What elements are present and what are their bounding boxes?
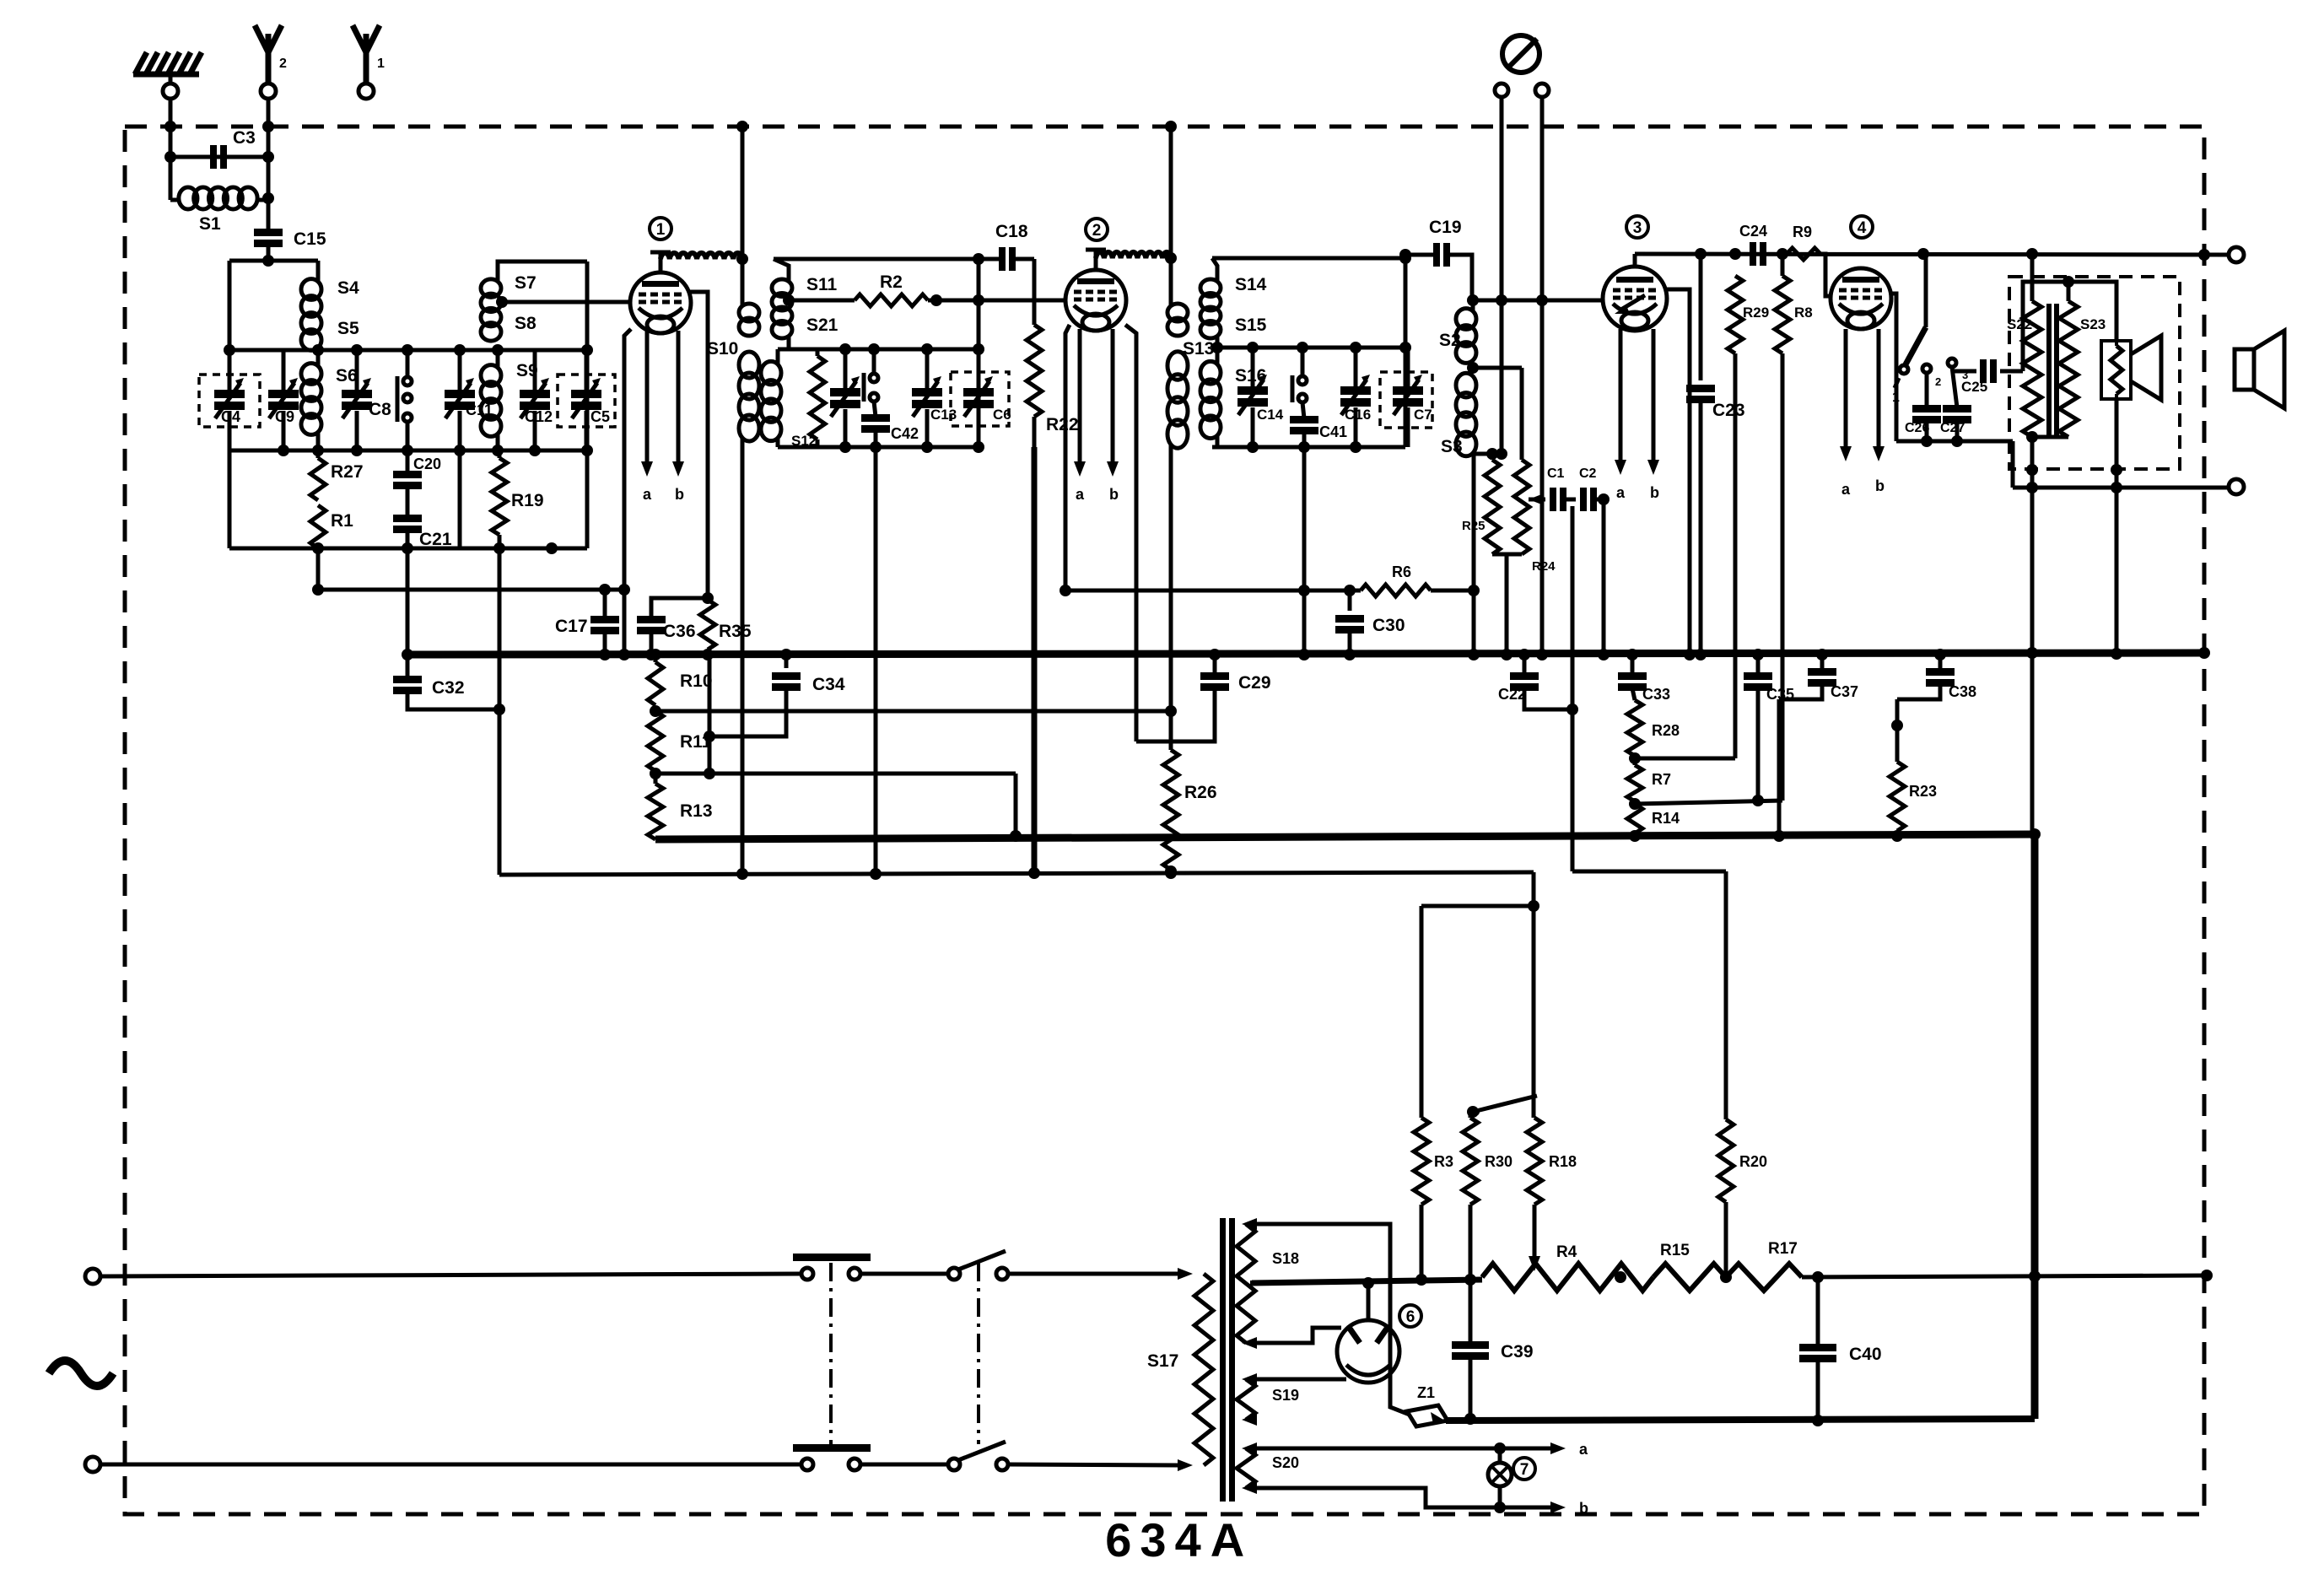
resistor R9 — [1787, 224, 1820, 260]
wire C1 C2 — [1566, 498, 1576, 502]
bus y1517 — [1252, 1280, 1482, 1283]
svg-text:R11: R11 — [680, 732, 712, 752]
svg-text:C34: C34 — [812, 675, 845, 694]
resistor R7 — [1627, 756, 1671, 801]
S20 bottom wire — [1247, 1488, 1588, 1517]
R25 R24 bottoms — [1492, 554, 1522, 660]
tuning meter — [1502, 35, 1539, 73]
svg-text:R7: R7 — [1652, 771, 1671, 788]
svg-text:4: 4 — [1858, 219, 1867, 237]
rail y415 — [224, 344, 587, 356]
main bus1 — [407, 647, 2210, 659]
svg-text:a: a — [1841, 481, 1851, 498]
ground terminal — [163, 84, 178, 99]
resistor R28 — [1627, 700, 1680, 756]
speaker coil box — [2101, 341, 2131, 399]
capacitor C27 — [1940, 367, 1971, 441]
output dashed box — [2009, 277, 2180, 469]
svg-text:R25: R25 — [1462, 519, 1486, 533]
capacitor C17 — [555, 584, 619, 660]
svg-text:C4: C4 — [221, 408, 240, 425]
svg-text:R28: R28 — [1652, 722, 1680, 739]
svg-text:S21: S21 — [806, 315, 838, 335]
svg-text:2: 2 — [279, 57, 287, 71]
svg-text:R14: R14 — [1652, 810, 1680, 827]
osc coil S12 — [761, 349, 817, 449]
capacitor C25 — [1952, 359, 2023, 395]
variable capacitor C12 — [520, 350, 553, 450]
svg-text:C37: C37 — [1831, 683, 1858, 700]
secondary S23 — [2059, 301, 2106, 437]
svg-text:b: b — [1579, 1500, 1588, 1517]
transformer core — [2046, 304, 2059, 439]
svg-text:C16: C16 — [1345, 407, 1371, 423]
svg-text:Z1: Z1 — [1417, 1384, 1435, 1401]
wire C3 link — [170, 155, 268, 159]
AC symbol — [49, 1361, 113, 1386]
variable capacitor C43 — [830, 349, 860, 447]
svg-text:6: 6 — [1406, 1308, 1415, 1326]
HT centre tap — [1250, 1281, 1252, 1286]
wire C19 to grid — [1449, 255, 1603, 306]
osc rail y530 — [778, 441, 979, 453]
B4 anode wire — [1890, 294, 1896, 441]
chain to border — [1802, 1270, 2213, 1283]
main bus2 — [655, 828, 2041, 840]
coil S2 — [1439, 309, 1476, 364]
speaker coil top wire — [2062, 276, 2116, 341]
resistor R27 — [310, 450, 364, 500]
AC wire to primary upper — [1009, 1268, 1193, 1280]
svg-text:C17: C17 — [555, 617, 588, 636]
coil S4 S5 — [301, 278, 359, 350]
resistor R35 — [700, 600, 752, 660]
resistor R13 — [648, 771, 713, 839]
svg-text:C32: C32 — [432, 678, 465, 698]
coil S10 — [707, 304, 759, 441]
B2 top cap squiggle — [1086, 248, 1177, 270]
rectifier number — [1399, 1305, 1421, 1327]
svg-text:C15: C15 — [294, 229, 326, 249]
coil S9 — [481, 350, 538, 450]
rail y650 — [229, 450, 587, 554]
AC wire mid lower — [861, 1463, 948, 1467]
svg-text:S4: S4 — [337, 278, 359, 298]
svg-text:C8: C8 — [369, 400, 391, 419]
svg-text:7: 7 — [1520, 1461, 1529, 1479]
svg-text:C14: C14 — [1257, 407, 1284, 423]
B3 right side wire — [1665, 289, 1696, 660]
resistor R22 — [1027, 259, 1079, 447]
B3 heater lead a — [1615, 329, 1626, 501]
svg-text:R20: R20 — [1739, 1153, 1767, 1170]
switch2 contacts lower — [948, 1442, 1008, 1470]
svg-text:R10: R10 — [680, 671, 713, 691]
variable capacitor C6 — [963, 349, 1011, 447]
tube B3 — [1603, 267, 1667, 331]
svg-text:S14: S14 — [1235, 275, 1267, 294]
svg-text:2: 2 — [1092, 222, 1102, 240]
resistor R23 — [1890, 699, 1937, 842]
svg-text:C40: C40 — [1849, 1345, 1882, 1364]
antenna 1 terminal — [359, 84, 374, 99]
wire y917 — [650, 768, 1016, 779]
AC wire lower — [100, 1463, 801, 1467]
capacitor C21 — [393, 487, 452, 549]
capacitor C26 — [1905, 373, 1941, 441]
B2 cathode wire — [1060, 325, 1071, 596]
svg-text:R29: R29 — [1743, 305, 1769, 321]
switch1 bridge lower — [793, 1444, 871, 1452]
wire S1 left — [169, 157, 173, 200]
wire C41 down — [1298, 447, 1310, 660]
wire osc down 1038 — [874, 447, 878, 871]
capacitor C20 — [393, 450, 441, 489]
switch2 contacts upper — [948, 1251, 1008, 1280]
svg-text:R3: R3 — [1434, 1153, 1453, 1170]
variable capacitor C8 — [342, 350, 391, 450]
variable capacitor C7 — [1393, 348, 1432, 447]
resistor R30 — [1463, 1112, 1512, 1286]
svg-text:C42: C42 — [891, 425, 919, 442]
svg-text:a: a — [643, 486, 652, 503]
output terminal upper — [2229, 247, 2244, 262]
wire y523 — [1896, 435, 2013, 447]
resistor R14 — [1627, 804, 1680, 842]
svg-text:R1: R1 — [331, 511, 353, 531]
svg-text:R9: R9 — [1793, 224, 1812, 240]
svg-text:1: 1 — [377, 57, 385, 71]
svg-text:R17: R17 — [1768, 1240, 1798, 1258]
capacitor C42 — [861, 402, 919, 447]
svg-text:C24: C24 — [1739, 223, 1767, 240]
switch1 bridge upper — [793, 1254, 871, 1261]
svg-text:a: a — [1579, 1441, 1588, 1458]
S20 top wire — [1247, 1441, 1588, 1458]
output terminal lower — [2229, 479, 2244, 494]
svg-text:R13: R13 — [680, 801, 713, 821]
svg-text:C39: C39 — [1501, 1342, 1534, 1361]
wire x1864 down — [1566, 506, 1578, 871]
S19 top wire — [1247, 1378, 1346, 1382]
IF2 right side — [1399, 258, 1411, 447]
big speaker — [2235, 331, 2284, 408]
capacitor C1 — [1547, 466, 1566, 511]
wire top border to S10 — [736, 121, 748, 305]
tube B2 — [1065, 270, 1126, 331]
B4 heater lead b — [1873, 329, 1885, 494]
resistor R18 — [1527, 1118, 1577, 1271]
wire y843 — [650, 705, 1171, 717]
tube B1 number — [650, 218, 671, 240]
svg-text:C9: C9 — [275, 408, 294, 425]
capacitor C40 — [1799, 1277, 1882, 1426]
variable capacitor C16 — [1340, 348, 1371, 447]
wire antenna2 down — [262, 99, 274, 230]
svg-text:R23: R23 — [1909, 783, 1937, 800]
svg-text:S6: S6 — [336, 366, 358, 386]
svg-text:C7: C7 — [1414, 407, 1432, 423]
svg-text:2: 2 — [1935, 375, 1941, 388]
wire top border to S13 — [1165, 121, 1177, 258]
svg-text:C12: C12 — [525, 408, 553, 425]
svg-text:S18: S18 — [1272, 1250, 1299, 1267]
antenna 2 symbol — [255, 25, 287, 84]
wire to R20 top — [1572, 870, 1726, 874]
svg-text:S8: S8 — [515, 314, 537, 333]
switch contact 2 — [1922, 364, 1941, 388]
svg-text:S10: S10 — [707, 339, 738, 359]
resistor R17 — [1726, 1240, 1802, 1291]
svg-text:b: b — [1875, 477, 1885, 494]
IF2 rail y530 — [1212, 441, 1405, 453]
svg-text:b: b — [675, 486, 684, 503]
meter wire 1 — [1496, 97, 1507, 460]
svg-text:3: 3 — [1633, 219, 1642, 237]
capacitor C19 — [1429, 218, 1462, 267]
B2 heater lead b — [1107, 329, 1119, 503]
capacitor C33 — [1618, 649, 1670, 703]
AC terminal upper — [85, 1269, 100, 1284]
primary S22 — [2007, 254, 2041, 437]
coil S3 — [1441, 373, 1476, 456]
coil S7 S8 — [481, 273, 537, 341]
wire R3 branch — [1421, 900, 1539, 1118]
svg-text:C25: C25 — [1961, 379, 1987, 395]
B1 anode wire — [690, 292, 714, 604]
wire y1035 — [499, 867, 1534, 880]
coil S13 — [1167, 258, 1214, 448]
svg-text:C3: C3 — [233, 128, 256, 148]
grid line to B2 — [930, 294, 1066, 306]
svg-text:634: 634 — [1105, 1513, 1209, 1565]
svg-text:S7: S7 — [515, 273, 537, 293]
B3 heater lead b — [1647, 329, 1659, 501]
speaker horn — [2131, 336, 2161, 400]
tube B4 — [1831, 268, 1891, 329]
svg-text:a: a — [1076, 486, 1085, 503]
AC wire to primary lower — [1009, 1459, 1193, 1471]
dashed box C4 — [199, 375, 260, 427]
antenna 2 terminal — [261, 84, 276, 99]
svg-text:S20: S20 — [1272, 1454, 1299, 1471]
svg-text:S13: S13 — [1183, 339, 1214, 359]
svg-text:C22: C22 — [1498, 686, 1526, 703]
resistor R25 — [1462, 448, 1500, 554]
svg-text:S5: S5 — [337, 319, 359, 338]
wire R9 to B4 grid — [1820, 254, 1831, 296]
output lower wire — [2026, 464, 2229, 659]
S18 top wire — [1247, 1224, 1410, 1415]
capacitor C37 — [1779, 649, 1858, 700]
capacitor C3 — [210, 128, 256, 169]
capacitor C18 — [995, 222, 1028, 271]
svg-text:C29: C29 — [1238, 673, 1271, 693]
svg-text:R22: R22 — [1046, 415, 1079, 434]
capacitor C29 — [1136, 649, 1271, 741]
S18 bottom wire — [1247, 1328, 1341, 1343]
resistor R10 — [648, 649, 713, 705]
svg-text:R26: R26 — [1184, 783, 1217, 802]
svg-text:S23: S23 — [2080, 316, 2106, 332]
bottom rail thick — [1446, 1419, 2035, 1421]
capacitor C38 — [1897, 649, 1976, 700]
osc damping resistor — [810, 349, 825, 447]
capacitor C15 — [254, 229, 326, 249]
B+ rail y301 — [1635, 248, 2229, 261]
secondary top wire — [2023, 282, 2068, 371]
capacitor C22 — [1498, 649, 1572, 709]
osc rail y307 — [774, 253, 1000, 265]
wire right branch to S4 — [316, 261, 321, 281]
resistor R24 — [1467, 362, 1556, 574]
svg-text:C1: C1 — [1547, 466, 1565, 481]
svg-text:C18: C18 — [995, 222, 1028, 241]
svg-text:R2: R2 — [880, 272, 903, 292]
svg-text:S1: S1 — [199, 214, 221, 234]
tube B1 — [630, 272, 691, 333]
grid line into B1 — [496, 296, 630, 308]
capacitor C34 — [704, 649, 845, 742]
svg-text:b: b — [1650, 484, 1659, 501]
svg-text:S2: S2 — [1439, 331, 1461, 350]
svg-text:b: b — [1109, 486, 1119, 503]
resistor R26 — [1163, 711, 1217, 877]
B3 anode to rail — [1633, 254, 1637, 267]
osc switch contacts — [864, 349, 878, 402]
svg-text:S3: S3 — [1441, 437, 1463, 456]
capacitor C30 — [1335, 585, 1405, 660]
svg-text:C2: C2 — [1579, 466, 1597, 481]
svg-text:C19: C19 — [1429, 218, 1462, 237]
resistor R29 — [1728, 276, 1769, 758]
resistor R8 — [1775, 248, 1813, 801]
wire y899 tap — [1629, 752, 1735, 764]
B2 heater lead a — [1074, 329, 1086, 503]
chassis dashed border — [125, 127, 2204, 1514]
resistor R19 — [492, 450, 544, 548]
svg-text:R35: R35 — [719, 622, 752, 641]
svg-text:C5: C5 — [590, 408, 610, 425]
variable capacitor C4 — [214, 350, 245, 450]
svg-text:R19: R19 — [511, 491, 544, 510]
meter terminal 2 — [1535, 84, 1549, 97]
tube B4 number — [1851, 216, 1873, 238]
svg-text:C13: C13 — [930, 407, 957, 423]
wire C11 down — [458, 450, 462, 548]
capacitor C32 column — [393, 548, 499, 709]
switch1 link — [829, 1263, 833, 1444]
wiper to C1 — [1529, 493, 1545, 505]
fuse Z1 — [1407, 1384, 1448, 1426]
wire S3 bottom link — [1468, 454, 1502, 660]
secondary S20 — [1237, 1442, 1299, 1494]
svg-text:1: 1 — [656, 221, 666, 239]
svg-text:C26: C26 — [1905, 421, 1929, 435]
wire IF2 to C19 — [1399, 249, 1434, 261]
tube B3 number — [1626, 216, 1648, 238]
variable capacitor C9 — [268, 350, 299, 450]
switch lever R30 — [1467, 1096, 1537, 1118]
coil S14 S15 — [1200, 258, 1267, 338]
rail y534 — [229, 445, 587, 456]
wire x1819 down — [1532, 872, 1536, 1118]
wire y949 tap — [1629, 795, 1782, 810]
wire x2109 down — [1773, 699, 1785, 842]
AC wire upper — [100, 1274, 801, 1276]
B2 anode wire — [1125, 325, 1136, 741]
wire S10 down — [741, 439, 745, 871]
capacitor C41 — [1290, 402, 1347, 447]
waveband switch contacts — [397, 350, 412, 450]
switch1 contacts lower — [801, 1458, 860, 1470]
tube B2 number — [1086, 218, 1108, 240]
svg-text:C20: C20 — [413, 456, 441, 472]
antenna 1 symbol — [353, 25, 385, 84]
wire x592 down — [493, 548, 505, 875]
wire S23 bottom — [2026, 431, 2068, 443]
variable capacitor C11 — [445, 350, 493, 450]
wire C2 right — [1596, 493, 1610, 505]
ground symbol — [133, 52, 202, 84]
svg-text:R18: R18 — [1549, 1153, 1577, 1170]
capacitor C2 — [1579, 466, 1597, 511]
secondary S18 — [1237, 1218, 1299, 1349]
rectifier tube B6 — [1337, 1320, 1399, 1383]
primary S17 — [1147, 1274, 1213, 1465]
dashed box C5 — [558, 375, 615, 427]
variable capacitor C5 — [571, 350, 610, 450]
secondary S19 — [1237, 1373, 1299, 1426]
svg-text:C33: C33 — [1642, 686, 1670, 703]
coil S6 — [301, 350, 358, 450]
B1 cathode wire — [618, 329, 631, 660]
wire S13 down — [1165, 445, 1177, 717]
capacitor C24 — [1739, 223, 1767, 266]
svg-text:C36: C36 — [663, 622, 696, 641]
IF2 rail y412 — [1211, 337, 1405, 353]
AC wire mid upper — [861, 1272, 948, 1276]
svg-text:R15: R15 — [1660, 1242, 1690, 1259]
svg-text:S22: S22 — [2007, 316, 2032, 332]
svg-text:1: 1 — [1892, 391, 1900, 405]
wire C18 to R22 — [1015, 257, 1034, 261]
svg-text:R6: R6 — [1392, 563, 1411, 580]
svg-text:S19: S19 — [1272, 1387, 1299, 1404]
svg-text:R4: R4 — [1556, 1243, 1577, 1261]
resistor R11 — [648, 711, 712, 771]
AC terminal lower — [85, 1457, 100, 1472]
wire x1204 down — [1010, 774, 1022, 842]
resistor R6 — [1065, 563, 1474, 596]
B1 heater lead b — [672, 331, 684, 503]
rectifier top wire — [1362, 1277, 1374, 1320]
svg-text:S11: S11 — [806, 275, 838, 294]
wire S2 top — [1467, 294, 1479, 310]
svg-text:R24: R24 — [1532, 559, 1556, 574]
coil S11 S21 — [772, 259, 838, 338]
svg-text:R27: R27 — [331, 462, 364, 482]
switch1 contacts upper — [801, 1268, 860, 1280]
resistor R1 — [310, 505, 353, 548]
B1 heater lead a — [641, 331, 653, 503]
switch lever 1 — [1892, 254, 1926, 405]
wire C15 down + tee — [229, 245, 318, 267]
B3 inner arrow — [1615, 295, 1645, 314]
svg-text:C41: C41 — [1319, 423, 1347, 440]
IF2 rail y306 — [1212, 252, 1411, 264]
resistor R2 — [783, 272, 936, 306]
